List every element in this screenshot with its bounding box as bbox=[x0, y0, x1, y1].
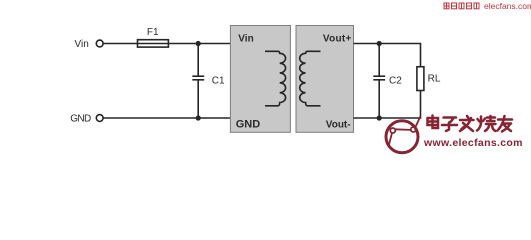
module U2 output box bbox=[296, 26, 354, 133]
svg-text:Vin: Vin bbox=[238, 33, 253, 44]
svg-text:elecfans.com: elecfans.com bbox=[484, 1, 531, 11]
svg-text:F1: F1 bbox=[147, 27, 159, 38]
svg-text:www.elecfans.com: www.elecfans.com bbox=[423, 137, 523, 149]
wire Vout+ bbox=[354, 44, 421, 67]
wire Vin to fuse bbox=[103, 43, 137, 45]
node junction top C1 bbox=[196, 41, 201, 46]
char shao bbox=[477, 116, 496, 131]
secondary winding L2 bbox=[300, 51, 321, 106]
char zi bbox=[442, 118, 457, 132]
terminal Vin bbox=[96, 40, 103, 47]
svg-text:Vout-: Vout- bbox=[326, 119, 351, 130]
node junction top C2 bbox=[377, 41, 382, 46]
wire GND to left module bbox=[103, 117, 230, 119]
capacitor C1 bbox=[192, 44, 204, 119]
svg-text:GND: GND bbox=[70, 113, 91, 124]
watermark text 电子发烧友 (simplified strokes) bbox=[428, 116, 513, 132]
wire fuse to left module bbox=[168, 43, 230, 45]
char dian bbox=[428, 116, 439, 129]
node junction bottom C2 bbox=[377, 115, 382, 120]
resistor RL bbox=[417, 67, 424, 91]
capacitor C2 bbox=[373, 44, 385, 119]
fuse F1 bbox=[138, 40, 169, 47]
primary winding L1 bbox=[265, 51, 286, 106]
svg-text:GND: GND bbox=[236, 118, 261, 130]
char you bbox=[498, 116, 513, 132]
svg-text:C1: C1 bbox=[212, 75, 225, 86]
watermark top right bbox=[444, 1, 531, 11]
node junction bottom C1 bbox=[196, 115, 201, 120]
svg-text:Vin: Vin bbox=[75, 39, 89, 50]
svg-text:C2: C2 bbox=[389, 75, 402, 86]
module U1 input filter box bbox=[230, 26, 290, 133]
char fa bbox=[460, 116, 474, 131]
svg-text:RL: RL bbox=[428, 73, 441, 84]
wire Vout- bbox=[354, 91, 421, 119]
svg-text:Vout+: Vout+ bbox=[323, 33, 352, 44]
terminal GND bbox=[96, 115, 103, 122]
watermark logo elecfans bbox=[386, 117, 420, 153]
